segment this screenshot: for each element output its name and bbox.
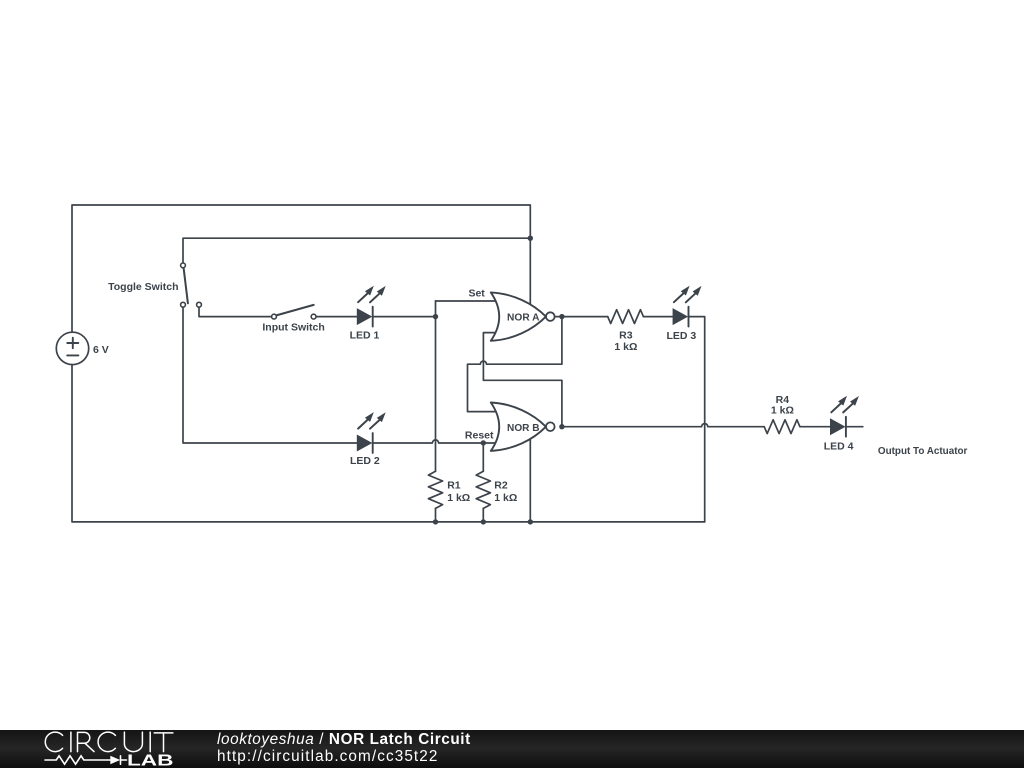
footer title text [217,731,471,765]
resistor R4 [764,420,800,434]
logo letter I [70,732,72,752]
svg-text:6 V: 6 V [93,344,109,356]
wire: inner rail from toggle common pin up and right to VDD node [183,238,530,263]
svg-text:NOR A: NOR A [507,312,540,324]
junction node: R1 ground [433,519,438,524]
wire: set node vertical down to R1 [435,301,437,471]
voltage source V1 body [56,332,88,364]
svg-text:Reset: Reset [465,430,494,442]
wire: R4 to LED4 [801,426,831,428]
input switch left pin [272,314,277,319]
resistor R1 [428,471,442,508]
resistor R2 [476,471,490,508]
junction node: VDD rail [528,236,533,241]
NOR A output bubble [546,312,555,321]
V1 plus sign [67,338,78,349]
wire: LED2 out to NOR B reset input with hop over R1 vertical [373,440,496,443]
logo letter U [124,732,142,751]
V1 minus sign [67,354,78,356]
logo letter C [45,732,62,752]
svg-text:LED 3: LED 3 [667,330,697,342]
logo diode symbol [110,756,120,764]
wire: toggle throw A down, LED2 row left lead [183,307,357,443]
wire: NOR B output cross-couple to NOR A input 2 [483,333,562,427]
wire: R1 bottom lead to ground rail [435,508,437,522]
svg-text:Input Switch: Input Switch [262,322,324,334]
footer bar [0,730,1024,768]
svg-text:1 kΩ: 1 kΩ [494,492,517,504]
junction node: R2 ground [481,519,486,524]
LED LED1 [357,286,386,327]
junction node: NOR B ground [528,519,533,524]
svg-text:R3: R3 [619,330,633,342]
NOR gate U1 NOR A body [491,292,546,340]
logo letter T [154,733,173,752]
wire: NOR A output to R3 [555,316,608,318]
toggle switch common pin [181,263,186,268]
input switch right pin [311,314,316,319]
svg-text:NOR B: NOR B [507,422,540,434]
toggle switch throw A pin [181,302,186,307]
wire: battery negative down, ground rail [72,365,705,522]
logo letter C [98,732,115,752]
logo resistor symbol [45,756,110,764]
wire: battery positive up, top rail, NOR A VDD stub [72,205,530,332]
junction node: NOR B output [559,424,564,429]
svg-text:1 kΩ: 1 kΩ [771,405,794,417]
wire: R2 bottom lead to ground rail [482,508,484,522]
junction node: reset node [481,440,486,445]
svg-text:Set: Set [468,288,485,300]
logo letter I [149,732,151,752]
wire: NOR A output cross-couple to NOR B input 1 with hop [468,317,562,412]
NOR gate U2 NOR B body [491,403,546,451]
svg-text:R1: R1 [447,480,461,492]
resistor R3 [608,310,644,324]
wire: set stub into NOR A input 1 [436,300,498,302]
logo letter R [78,732,95,751]
wire: LED4 output stub [847,426,863,428]
wire: toggle throw B elbow to input switch [199,307,272,317]
svg-text:1 kΩ: 1 kΩ [447,492,470,504]
svg-text:LED 1: LED 1 [350,329,380,341]
wire: LED1 out to set node [373,316,435,318]
LED LED3 [673,286,702,327]
svg-text:LED 2: LED 2 [350,455,380,467]
svg-text:Toggle Switch: Toggle Switch [108,281,178,293]
wire: input switch right pin to LED1 [316,316,357,318]
wire: R3 to LED3 [643,316,672,318]
wire: NOR B VSS stub to ground rail [529,430,531,522]
svg-text:Output To Actuator: Output To Actuator [878,445,968,457]
svg-text:LED 4: LED 4 [824,440,854,452]
wire: reset node to R2 top lead [482,443,484,471]
junction node: NOR A output [559,314,564,319]
wire: NOR B output to R4 with hop over LED3 return [562,424,764,427]
LED LED4 [830,396,859,437]
svg-text:1 kΩ: 1 kΩ [614,341,637,353]
svg-text:LAB: LAB [127,752,173,768]
NOR B output bubble [546,422,555,431]
input switch blade [276,305,314,316]
wire: LED3 out, corner down to ground rail [689,317,705,522]
LED LED2 [357,412,386,453]
toggle switch blade [184,268,188,303]
junction node: set node [433,314,438,319]
toggle switch throw B pin [197,302,202,307]
svg-text:R2: R2 [494,480,508,492]
